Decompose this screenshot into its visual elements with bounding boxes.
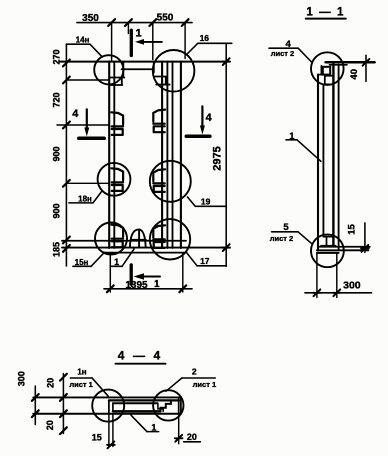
label 2 leader	[182, 377, 215, 379]
plate outer edges	[33, 396, 181, 398]
section marker 4 (right)	[201, 106, 203, 128]
svg-text:550: 550	[157, 13, 174, 24]
svg-text:19: 19	[201, 197, 211, 207]
svg-text:900: 900	[51, 203, 61, 218]
svg-text:1395: 1395	[125, 280, 148, 291]
top plate bottom edge (between top clips)	[122, 68, 153, 70]
svg-text:2: 2	[192, 367, 197, 377]
section marker 1 (top)	[130, 30, 133, 55]
arch detail at bottom centre	[130, 229, 146, 247]
svg-text:лист 2: лист 2	[270, 234, 293, 243]
callout circles	[92, 390, 124, 422]
svg-text:350: 350	[82, 13, 99, 24]
15 dim bottom left	[108, 414, 110, 447]
svg-text:15н: 15н	[75, 258, 89, 267]
svg-text:720: 720	[51, 92, 61, 107]
svg-text:1: 1	[154, 279, 160, 290]
svg-text:4: 4	[206, 112, 213, 124]
left dim line	[65, 44, 67, 266]
label 1 (arch)	[110, 265, 122, 267]
hat channel	[109, 399, 179, 401]
svg-text:15: 15	[346, 224, 357, 235]
right rail (channel)	[161, 62, 163, 248]
label 19	[195, 205, 226, 207]
svg-text:17: 17	[200, 256, 210, 266]
svg-text:270: 270	[51, 49, 61, 64]
svg-text:1: 1	[289, 131, 294, 141]
left dims	[34, 386, 36, 425]
20 dim bottom right	[178, 414, 180, 444]
label 14n leader	[66, 43, 90, 45]
15 dim	[364, 223, 366, 252]
clips on left rail (facing right)	[111, 112, 123, 135]
extension lines from top dim	[111, 23, 113, 61]
svg-text:185: 185	[51, 242, 61, 257]
top cap (pos.4)	[326, 61, 375, 64]
svg-text:4: 4	[72, 108, 79, 120]
svg-text:лист 1: лист 1	[69, 380, 92, 389]
top edge of panel	[60, 61, 228, 63]
dim line 350/550	[77, 22, 192, 24]
svg-text:лист 2: лист 2	[271, 49, 294, 58]
label 1 leader	[147, 431, 159, 433]
shaft verticals	[317, 75, 319, 251]
left rail (channel 15)	[108, 62, 110, 248]
right dim line 2975	[225, 43, 227, 266]
svg-text:300: 300	[343, 280, 361, 292]
svg-text:20: 20	[187, 432, 197, 442]
svg-text:лист 1: лист 1	[193, 380, 216, 389]
callout circles	[311, 52, 344, 85]
svg-text:20: 20	[45, 420, 55, 430]
bottom cap (pos.5)	[323, 236, 333, 238]
svg-text:5: 5	[283, 222, 289, 233]
svg-text:1: 1	[151, 422, 156, 432]
svg-text:1: 1	[135, 27, 141, 39]
boundary extension lines	[66, 79, 109, 81]
svg-text:1: 1	[114, 257, 119, 267]
svg-text:4 — 4: 4 — 4	[118, 349, 163, 363]
svg-text:2975: 2975	[211, 146, 223, 170]
svg-text:40: 40	[349, 69, 360, 80]
svg-text:300: 300	[16, 371, 26, 386]
label 18n	[69, 202, 93, 204]
bottom plate	[62, 240, 186, 242]
label 15n	[73, 265, 91, 267]
300 dim	[316, 254, 318, 298]
label 1n leader	[70, 377, 92, 379]
svg-text:1 — 1: 1 — 1	[306, 6, 345, 18]
svg-text:900: 900	[51, 146, 61, 161]
label 1 leader	[286, 139, 297, 141]
label 4 / sheet2 leader	[269, 47, 298, 49]
label 16	[198, 42, 232, 44]
label 5 / sheet2 leader	[272, 231, 298, 233]
clip on left rail below top plate	[110, 63, 125, 86]
section marker 4 (left)	[86, 109, 88, 131]
callout circles	[94, 55, 123, 84]
section marker 1 (bottom)	[130, 265, 133, 284]
40 dim	[365, 55, 367, 81]
clip on right rail below top plate	[154, 63, 170, 85]
svg-text:18н: 18н	[78, 194, 92, 203]
svg-text:1н: 1н	[77, 368, 86, 377]
svg-text:15: 15	[92, 432, 102, 442]
label 17	[197, 265, 226, 267]
svg-text:20: 20	[45, 378, 55, 388]
svg-text:14н: 14н	[76, 36, 90, 45]
clips on right rail (facing left)	[153, 110, 165, 133]
dim 1395	[104, 288, 192, 290]
svg-text:16: 16	[200, 33, 210, 43]
